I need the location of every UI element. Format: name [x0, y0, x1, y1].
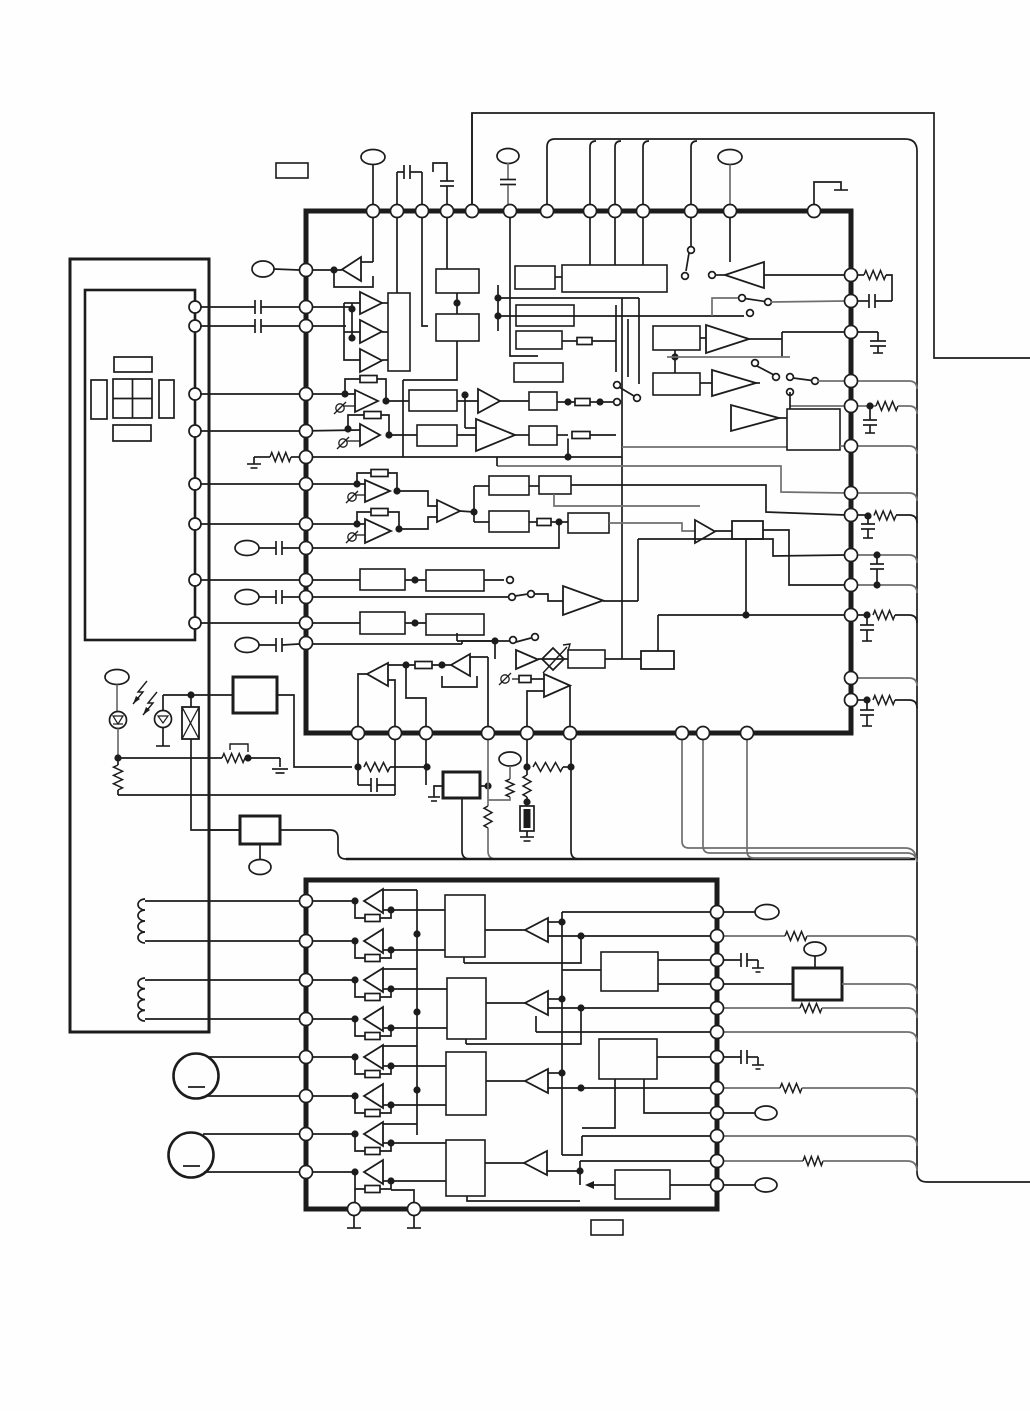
capacitor C4: [195, 325, 255, 327]
node: link dot: [453, 299, 460, 306]
buffer A2: [360, 292, 382, 314]
ground stub 1: [353, 1216, 355, 1228]
wire: B11 nets: [548, 1072, 562, 1074]
connector J9: [499, 752, 521, 766]
connector J6: [235, 590, 259, 605]
node: A13b out: [395, 525, 402, 532]
wire: pin395 drop: [394, 728, 396, 795]
LED D2: [162, 695, 164, 711]
amp A14 (line): [563, 586, 603, 615]
key button (down): [113, 425, 151, 441]
wire: pin to supply rail: [471, 113, 473, 205]
inverting amp B5 with feedback resistor: [299, 1056, 355, 1058]
amp A12 (wide): [476, 419, 515, 451]
block: U1b: [436, 269, 479, 293]
wire: A14 out: [603, 600, 638, 602]
resistor R16 (pin488): [487, 728, 489, 806]
resistor R12 / capacitor C10 (pin 615): [858, 614, 867, 616]
node: net dot a: [494, 294, 501, 301]
resistor R19 (row936): [724, 935, 785, 937]
wire: net y641: [457, 640, 495, 642]
wire: row912: [562, 911, 710, 913]
inductor L1: [138, 899, 145, 943]
block: F9: [299, 579, 360, 581]
connector J8 (IR): [105, 670, 129, 685]
amp B12: [524, 1151, 547, 1175]
wire: D1 to node: [117, 729, 119, 759]
wire: vertical x616: [615, 305, 617, 372]
connector J1 (top): [361, 150, 385, 165]
wire: row1161: [580, 1160, 710, 1162]
wire row (keypad 3): [195, 393, 299, 395]
block: U1c: [436, 314, 479, 341]
wire: A7 out: [756, 382, 760, 384]
wire: A6 branch: [674, 350, 676, 373]
amp A13 (sum): [437, 500, 460, 522]
wire: net b run: [498, 315, 744, 317]
capacitor C1 (between top pins): [396, 172, 398, 205]
node: inverter input dot: [330, 266, 337, 273]
wire: pin riser to bus 2: [615, 141, 621, 205]
wire: row 643: [299, 643, 462, 645]
wire: row1032 ext: [724, 1032, 917, 1042]
op-amp A10 with feedback R4: [344, 425, 351, 432]
wire: A6 out: [749, 338, 782, 340]
resistor R22 (row1161): [724, 1160, 803, 1162]
inverter A15: [367, 663, 388, 686]
block: F13b: [641, 651, 674, 669]
block: driver D1: [445, 895, 485, 957]
wire row (keypad 8): [195, 622, 299, 624]
inverting amp B3 with feedback resistor: [299, 979, 355, 981]
inverter A1: [299, 269, 342, 271]
capacitor C9 (pins 555/585): [858, 555, 917, 563]
ground stub 2: [413, 1216, 415, 1228]
block: driver D2: [447, 978, 486, 1039]
switch SW1: [688, 247, 695, 254]
block: F5: [474, 485, 489, 487]
inverting amp B6 with feedback resistor: [299, 1095, 355, 1097]
motor driver block M1: [793, 968, 842, 1000]
wire: pin747 drop: [747, 728, 910, 858]
resistor R13 / capacitor C11 (pin 700): [858, 699, 867, 701]
block: F14: [715, 530, 732, 532]
wire: U1g to pin: [840, 445, 844, 447]
wire: bus x562: [561, 912, 563, 1155]
amp A8: [731, 405, 779, 431]
wire: top-right supply rail: [472, 113, 1030, 358]
wire row (keypad 6): [195, 523, 299, 525]
wire: vertical x639: [638, 298, 640, 384]
resistor R10 / capacitor C7 (pin 406): [858, 405, 876, 407]
wire: net a run: [498, 297, 639, 299]
resonator X1: [190, 695, 192, 707]
wire: PS1 out: [277, 695, 352, 767]
node: crystal dot: [187, 691, 194, 698]
wire: osc link: [555, 276, 562, 278]
resistor R5 (box): [557, 401, 568, 403]
inverter A16: [451, 654, 470, 676]
key button (left): [91, 380, 107, 419]
block: F10: [426, 570, 484, 591]
bus: main supply bus (top & right): [547, 139, 1030, 1182]
key button (up): [114, 357, 152, 372]
amp A6: [653, 326, 700, 350]
node: buffer in dot 1: [348, 305, 355, 312]
node: tap dot: [461, 391, 468, 398]
capacitor C6 (pin 332): [858, 331, 878, 333]
bus: lower horizontal: [346, 858, 915, 861]
resistor R18 (vert): [523, 775, 531, 797]
key button (right): [159, 380, 174, 418]
wire: pin678 to bus: [858, 678, 917, 686]
block: F7: [474, 521, 489, 523]
resistor R7 (box): [529, 521, 537, 523]
node: PS2 right dot: [484, 782, 491, 789]
wire: pin358 drop: [357, 728, 359, 767]
block: driver D4: [446, 1140, 485, 1196]
amp A18: [512, 678, 519, 680]
inverting amp B8 with feedback resistor: [299, 1171, 355, 1173]
connector J2 (top): [497, 149, 519, 164]
photodiode D1: [116, 685, 118, 713]
keypad block outline: [85, 290, 195, 640]
jack J12: [169, 1133, 214, 1178]
switch SW2b contact: [747, 310, 754, 317]
wire: F14 tap: [745, 539, 747, 615]
block: F13: [568, 650, 605, 668]
op-amp A13b with feedback R24: [299, 523, 365, 525]
block: U1e: [516, 331, 562, 349]
wire: pin 643 drop: [642, 205, 644, 265]
block: F12: [426, 614, 484, 635]
wire: F6 out: [571, 485, 845, 515]
op-amp A13a with feedback R23: [299, 483, 365, 485]
node: IR dot: [114, 754, 121, 761]
switch SW2: [739, 295, 746, 302]
block: level det 1: [601, 952, 658, 991]
wire: A15 feedback to pin: [406, 665, 426, 728]
block: system control: [562, 265, 667, 292]
wire: bias row: [163, 694, 233, 696]
amp A11: [478, 389, 500, 413]
wire: row8 feedback to pin: [354, 1189, 356, 1204]
switch SW3: [752, 360, 759, 367]
wire: x414 to pin: [391, 1190, 414, 1204]
resistor R1 with ground: [291, 456, 299, 458]
connector J10: [259, 844, 261, 859]
capacitor C2 with jumper hook: [446, 186, 448, 205]
jack J11: [174, 1054, 219, 1099]
resistor R14 (IR bias): [117, 758, 119, 765]
wire: long net y457: [299, 456, 622, 458]
node: dot 527: [523, 763, 530, 770]
wire: F14 out: [763, 530, 845, 585]
block: filter F2: [417, 425, 457, 446]
regulator PS2: [443, 772, 480, 798]
wire: F8 out: [609, 523, 695, 531]
front-panel block outline: [70, 259, 209, 1032]
wire: row 597: [299, 596, 508, 598]
wire: U1c down-feed: [403, 341, 457, 380]
wire: tap to pin row 548: [303, 522, 559, 548]
resistor R17: [533, 763, 563, 772]
block: osc divider: [515, 266, 555, 289]
wire: A8 out: [779, 417, 787, 419]
wire: X1 down: [191, 739, 240, 830]
resistor R2 (box): [562, 340, 577, 342]
resistor R11 / capacitor C8 (pin 515): [858, 514, 868, 516]
wire: pin426 drop: [425, 728, 427, 785]
connector J7: [235, 638, 259, 653]
switch SW5 lever: [515, 594, 528, 596]
block: F11: [299, 622, 360, 624]
wire: amps to driver D1: [391, 909, 445, 911]
wire: vertical x622: [621, 298, 623, 659]
IC pin circles: [367, 205, 380, 218]
switch SW4: [614, 382, 621, 389]
block: F3: [500, 400, 529, 402]
node: net dot y457: [564, 453, 571, 460]
wire: row1008: [581, 1007, 710, 1009]
connector J5: [235, 541, 259, 556]
main IC U1 outline: [306, 211, 851, 733]
wire row (keypad 7): [195, 579, 299, 581]
node: A13 out dot: [470, 508, 477, 515]
trimmer RV1: [222, 754, 245, 763]
wire: row615 interior: [658, 614, 845, 616]
node: A10 out: [385, 431, 392, 438]
node: R7 dot: [555, 518, 562, 525]
wire: B10 nets: [548, 998, 562, 1000]
wire: pin 615 drop: [614, 205, 616, 265]
wire: SW5 to A14: [534, 594, 563, 601]
node: F11 dot: [411, 619, 418, 626]
block: level det 2: [599, 1039, 657, 1079]
inverting amp B2 with feedback resistor: [299, 940, 355, 942]
resistor R9 / capacitor C5 (pins 275/301): [858, 274, 864, 276]
ground: PS2: [434, 786, 443, 797]
inverter A5 (monitor): [709, 272, 716, 279]
wire: ctrl vertical x498: [497, 285, 499, 331]
node: buffer in dot 2: [348, 334, 355, 341]
wire: bias bus x417: [416, 890, 418, 1135]
sub IC U2 outline: [306, 880, 717, 1209]
wire row (keypad 4): [195, 430, 299, 432]
resistor R15: [354, 763, 361, 770]
connector J15: [724, 1112, 755, 1114]
op-amp A9 with feedback R3: [341, 390, 348, 397]
wire: amps to driver D2: [391, 988, 447, 990]
capacitor C3: [195, 306, 255, 308]
wire: IR row 2: [118, 794, 395, 796]
battery/fuse F1: [520, 806, 534, 831]
wire: row1136: [582, 1135, 710, 1137]
wire: amps to driver D3: [391, 1065, 446, 1067]
wire: B1 to bus: [280, 830, 346, 859]
power block PS1: [233, 677, 277, 713]
block: F6: [529, 485, 539, 487]
node: A6 dot: [671, 353, 678, 360]
wire: pin527 drop: [526, 728, 528, 767]
wire: B9 nets: [548, 921, 562, 923]
digital-ground hook (pin 814): [814, 182, 841, 205]
wire: pin stub: [422, 205, 428, 326]
wire: pin703 drop: [703, 728, 917, 862]
block: U1f: [514, 363, 563, 382]
inverting amp B4 with feedback resistor: [299, 1018, 355, 1020]
amp A7: [653, 373, 700, 395]
buffer A4: [360, 349, 382, 372]
wire: panel to B1: [209, 829, 240, 831]
wire: pin riser to bus 4: [691, 141, 697, 205]
wire: vertical x628: [627, 319, 629, 377]
switch SW6: [510, 637, 517, 644]
resistor R6 (box): [557, 434, 568, 436]
capacitor C13 ground (row960): [724, 959, 741, 961]
wire: M1 to bus: [842, 984, 917, 994]
wire: F10 out: [484, 579, 504, 581]
wire: pin381 to bus: [858, 381, 917, 389]
amp B9: [525, 918, 548, 942]
wire: PS2 to bus: [462, 798, 470, 859]
wire: pin riser to bus 3: [643, 141, 649, 205]
inverting amp B7 with feedback resistor: [299, 1133, 355, 1135]
wire: pin to U1b: [446, 205, 448, 269]
wire: pin493 to bus: [858, 493, 917, 501]
wire: pin446 to bus: [858, 446, 917, 454]
wire: bottom run: [467, 1196, 580, 1201]
wire: gray riser x488: [487, 657, 489, 728]
capacitor C14 ground (row1056): [724, 1056, 741, 1058]
inductor L2: [138, 978, 145, 1021]
wire: IR row: [118, 757, 222, 759]
wire: U1b-U1c link: [456, 293, 458, 314]
node: A9 out: [382, 397, 389, 404]
node: net dot b: [494, 312, 501, 319]
block: U1d: [516, 305, 574, 326]
block: F8: [559, 521, 568, 523]
IR rays: [133, 681, 147, 704]
arrow: servo out: [593, 1184, 615, 1186]
key cluster 2x2: [113, 379, 152, 418]
wire: row936: [581, 935, 710, 937]
resistor R20 (row1008): [724, 1007, 800, 1009]
block: filter F1: [409, 390, 457, 411]
connector J4 (IR in): [252, 261, 274, 277]
wire: ctrl net a: [729, 218, 731, 262]
label box: [276, 163, 308, 178]
attenuator (variable): [542, 648, 564, 670]
wire: pin riser to bus 1: [590, 141, 596, 205]
wire: riser x403: [402, 380, 404, 457]
capacitor C12: [357, 767, 359, 785]
amp A19: [695, 520, 715, 543]
wire row (keypad 5): [195, 483, 299, 485]
block: U1g: [787, 409, 840, 450]
amp B10: [525, 991, 548, 1015]
wire: pin 590 drop: [589, 205, 591, 265]
resistor R8 (box): [415, 662, 432, 669]
connector J16: [724, 1184, 755, 1186]
block: servo: [615, 1170, 670, 1199]
connector J14: [804, 942, 826, 956]
connector J3 (top): [718, 150, 742, 165]
node: A15 net dots: [402, 661, 409, 668]
resistor R21 (row1088): [724, 1087, 780, 1089]
wire: pin426 to cap: [377, 784, 426, 786]
wire: pin682 drop: [682, 728, 916, 858]
wire: row1032: [536, 1031, 710, 1033]
wire: amps to driver D4: [391, 1142, 446, 1144]
block: driver D3: [446, 1052, 486, 1115]
wire: pin to mux top: [396, 205, 398, 293]
inverting amp B1 with feedback resistor: [299, 900, 355, 902]
wire: F1 to A11: [457, 400, 478, 402]
wire: buffer input bus: [299, 306, 352, 308]
label box 2: [591, 1220, 623, 1235]
node: dot 495: [491, 637, 498, 644]
block: mux U1a: [388, 293, 410, 371]
connector J13: [724, 911, 755, 913]
node: F9 dot: [411, 576, 418, 583]
buffer A3: [360, 320, 382, 343]
node: A13a out: [393, 487, 400, 494]
wire: long net y466: [497, 466, 845, 493]
wire: row1136 ext: [724, 1136, 917, 1146]
amp A17: [494, 641, 496, 659]
wire: buffers to mux: [382, 302, 388, 304]
interface block B1: [240, 816, 280, 844]
block: F4: [515, 434, 529, 436]
wire: pin570 to bus: [571, 728, 579, 859]
switch SW5: [507, 577, 514, 584]
amp B11: [525, 1069, 548, 1093]
